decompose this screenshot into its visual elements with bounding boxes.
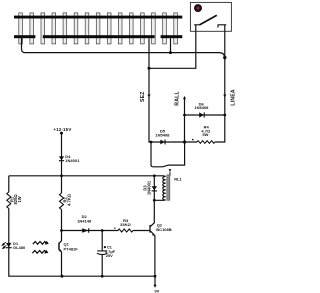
svg-text:33KΩ: 33KΩ bbox=[120, 222, 131, 227]
svg-text:+12-15V: +12-15V bbox=[53, 127, 71, 132]
svg-text:RALL: RALL bbox=[175, 90, 181, 105]
svg-text:4.7KΩ: 4.7KΩ bbox=[66, 193, 71, 206]
svg-text:LINEA: LINEA bbox=[230, 89, 236, 106]
svg-text:1N4001: 1N4001 bbox=[65, 158, 80, 163]
svg-text:5W: 5W bbox=[202, 132, 208, 137]
svg-text:1N5408: 1N5408 bbox=[194, 105, 209, 110]
svg-text:BC108B: BC108B bbox=[156, 227, 171, 232]
svg-text:RL1: RL1 bbox=[174, 177, 182, 182]
svg-text:1N5408: 1N5408 bbox=[155, 132, 170, 137]
svg-text:1W: 1W bbox=[17, 196, 22, 202]
svg-text:1N4148: 1N4148 bbox=[77, 218, 92, 223]
svg-text:0V: 0V bbox=[154, 288, 159, 293]
svg-text:PT481F: PT481F bbox=[64, 246, 79, 251]
svg-text:1N4001: 1N4001 bbox=[146, 180, 151, 195]
svg-text:SEZ: SEZ bbox=[140, 91, 146, 102]
svg-text:GL480: GL480 bbox=[13, 245, 26, 250]
svg-text:25V: 25V bbox=[106, 253, 113, 258]
